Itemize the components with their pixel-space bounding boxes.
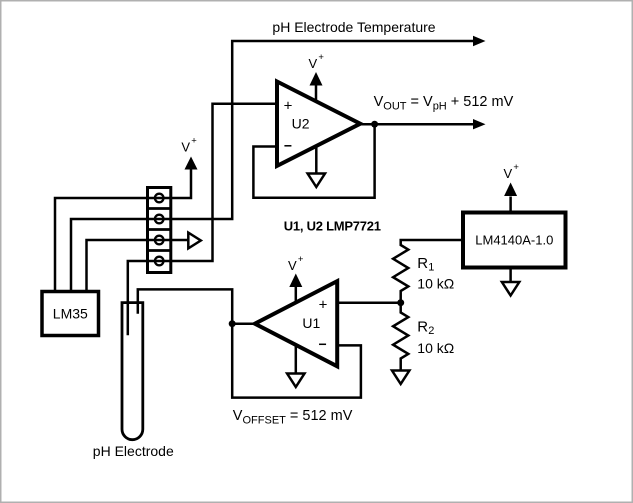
svg-text:V: V [374, 94, 384, 110]
svg-text:pH: pH [433, 100, 447, 112]
svg-text:512 mV: 512 mV [302, 408, 352, 424]
svg-text:U1: U1 [302, 315, 320, 331]
svg-text:pH Electrode: pH Electrode [93, 443, 174, 459]
svg-text:OUT: OUT [383, 100, 407, 112]
svg-text:+ 512 mV: + 512 mV [451, 94, 514, 110]
svg-text:V: V [423, 94, 433, 110]
svg-text:OFFSET: OFFSET [243, 415, 287, 427]
svg-text:−: − [319, 336, 327, 352]
svg-text:10 kΩ: 10 kΩ [417, 340, 454, 356]
svg-text:R: R [417, 319, 428, 336]
svg-text:1: 1 [428, 262, 434, 274]
svg-text:U2: U2 [292, 116, 310, 132]
svg-text:V: V [309, 56, 318, 71]
svg-text:U1, U2 LMP7721: U1, U2 LMP7721 [284, 219, 381, 234]
svg-text:−: − [284, 138, 292, 154]
svg-text:+: + [284, 98, 293, 115]
svg-text:=: = [411, 94, 419, 110]
svg-text:LM4140A-1.0: LM4140A-1.0 [475, 232, 553, 247]
svg-text:V: V [233, 408, 243, 424]
svg-text:+: + [513, 162, 519, 173]
svg-text:10 kΩ: 10 kΩ [417, 276, 454, 292]
svg-text:V: V [504, 166, 513, 181]
svg-text:R: R [417, 255, 428, 272]
svg-text:LM35: LM35 [53, 306, 88, 322]
svg-text:2: 2 [428, 325, 434, 337]
svg-text:V: V [288, 258, 297, 273]
svg-text:V: V [181, 140, 190, 155]
svg-text:pH Electrode Temperature: pH Electrode Temperature [272, 19, 435, 35]
svg-text:=: = [290, 408, 298, 424]
svg-text:+: + [298, 254, 304, 265]
svg-text:+: + [191, 136, 197, 147]
svg-text:+: + [318, 52, 324, 63]
svg-text:+: + [319, 297, 328, 314]
